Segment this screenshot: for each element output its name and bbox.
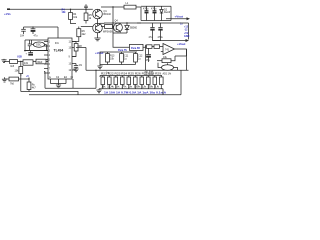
svg-text:REF: REF [38,61,43,64]
resistor RL2 [108,77,112,85]
resistor RL3 [114,77,118,85]
wire top rail [8,8,93,10]
resistor RL6 [134,77,138,85]
svg-text:Rectif: Rectif [164,11,170,14]
resistor R15 [154,45,160,49]
ground below Q2 [97,33,99,38]
svg-text:1A 10A 1A 0.7M 0.5A 1A 1uA 10u: 1A 10A 1A 0.7M 0.5A 1A 1uA 10u 0.1mA [104,91,166,94]
resistor RL8 [147,77,151,85]
resistor R10 [27,82,31,90]
svg-text:+Vout: +Vout [175,15,183,19]
resistor R2 [36,59,46,64]
wire pin row out [95,70,97,88]
wire osc bottom [25,50,48,52]
transistor Q2 [93,23,103,33]
wire ref to U1 pin [24,50,48,52]
meter M1 [130,44,144,50]
wire osc left [24,40,26,51]
wire 741 out [175,49,187,56]
resistor R16 [162,59,171,63]
svg-text:1k 10k 1k .7k 1k 10k 1k .5k 1k: 1k 10k 1k .7k 1k 10k 1k .5k 1k [101,85,160,88]
resistor R3 vertical [20,62,22,67]
wire riser left [44,72,46,89]
inductor L1 [124,5,136,9]
svg-text:U1B: U1B [17,56,22,59]
wire block left edge [145,47,147,71]
wire feedback column [85,48,87,71]
svg-text:SB560: SB560 [130,27,138,30]
zener D2 [161,6,163,9]
node output arrow 2 [186,39,190,42]
svg-text:1k5: 1k5 [10,65,15,68]
capacitor C6 [154,6,156,10]
svg-text:G: G [49,76,51,79]
wire bias column [28,78,30,92]
wire Q2 base drive [81,26,93,28]
wire collector row [100,22,105,24]
resistor RL5 [127,77,131,85]
wire sense line [153,35,161,41]
resistor RL10 [160,77,164,85]
wire meter out [143,45,146,47]
svg-text:470u: 470u [143,8,149,11]
svg-text:+Vout: +Vout [177,42,185,46]
svg-text:741: 741 [165,48,170,51]
capacitor CT [29,40,31,44]
ground ladder [98,89,100,90]
ladder stubs bottom [103,85,162,89]
resistor R12 [120,54,124,63]
resistor R14 [147,45,153,49]
capacitor C4 above rail [85,8,87,10]
reference U2 [23,60,33,65]
capacitor C9 [75,64,77,66]
wire under IC [51,83,67,85]
capacitor C8 [160,23,162,28]
svg-text:BD140: BD140 [104,13,112,16]
wire shunt path [113,23,130,47]
wire vcc drop to U1 [57,27,59,38]
transistor Q3 [114,23,123,32]
pin stubs right U1 [72,41,76,43]
svg-text:Para 5R: Para 5R [131,47,140,50]
svg-text:104: 104 [20,35,25,38]
resistor RL1 [101,77,105,85]
wire osc top [25,39,48,41]
wire feedback bus A [21,92,78,95]
op-amp U3 741 [163,44,175,55]
node Vin terminal [7,8,10,10]
resistor R7 [105,25,113,29]
transistor Q1 [93,9,103,19]
svg-text:+Vin: +Vin [4,12,11,16]
svg-text:Ct: Ct [71,76,74,79]
wire riser R3 [20,74,22,92]
resistor R11 [106,54,110,63]
capacitor C2 [32,27,34,29]
wire feedback bus B [29,94,181,96]
node output arrow [187,17,191,20]
capacitor C3 [24,51,26,52]
resistor RL7 [140,77,144,85]
ground under IC [56,84,61,86]
capacitor C1 [23,27,25,29]
resistor RL9 [153,77,157,85]
capacitor C7 [152,23,154,28]
wire common rail [86,69,189,71]
U1 bottom pins [50,79,52,84]
wire switch node [112,7,114,23]
node junction [20,61,21,62]
wire top rail right [101,6,124,8]
diode D1 [126,23,128,25]
svg-text:47u: 47u [34,35,39,38]
resistor R9 [9,77,19,81]
ladder box right [162,89,164,95]
svg-text:TL494: TL494 [54,49,64,53]
svg-text:MPSA56: MPSA56 [103,31,113,34]
ladder top rail [100,75,162,77]
wire caps rail [24,26,59,28]
wire ground return right [137,22,189,24]
resistor R8 [74,44,78,52]
ground bottom left [5,78,9,80]
crystal Y1 [33,42,44,47]
resistor R6 drive [77,29,81,37]
ground mid right [99,65,101,67]
svg-text:GND: GND [184,35,190,38]
filter block box [140,7,142,21]
svg-text:R21 R22 R23 R24 R25 R26 R27 R2: R21 R22 R23 R24 R25 R26 R27 R28 R29 [101,73,162,76]
capacitor C13 [148,48,150,54]
svg-text:470u: 470u [151,8,157,11]
svg-text:4k7: 4k7 [32,86,37,89]
resistor R13 [134,54,138,63]
resistor RL4 [121,77,125,85]
svg-text:ADJ 1%: ADJ 1% [163,73,173,76]
svg-text:10k: 10k [62,11,67,14]
pin stubs left U1 [44,41,48,43]
svg-text:OSC: OSC [36,44,41,47]
node junction [85,9,86,10]
resistor R5 [85,9,87,13]
svg-text:7k6: 7k6 [10,83,15,86]
resistor R4 [70,9,72,12]
svg-text:431: 431 [24,62,29,65]
trimmer RV1 [162,65,174,71]
wire bus C [45,87,96,89]
resistor R1 [10,60,18,64]
op-amp U1 TL494 [48,38,72,79]
wire +Vout tap [166,18,188,20]
svg-text:47u: 47u [146,59,151,62]
capacitor C5 [146,6,148,10]
ladder bottom rail [99,88,163,90]
divider rail top [100,52,108,56]
svg-text:Para 7S: Para 7S [118,49,127,52]
ladder stubs top [103,76,162,78]
svg-text:2k2: 2k2 [82,33,87,36]
svg-text:IN1: IN1 [55,42,59,45]
divider rail bottom [100,64,136,66]
node junction [70,9,71,10]
ground left mid [4,61,8,63]
